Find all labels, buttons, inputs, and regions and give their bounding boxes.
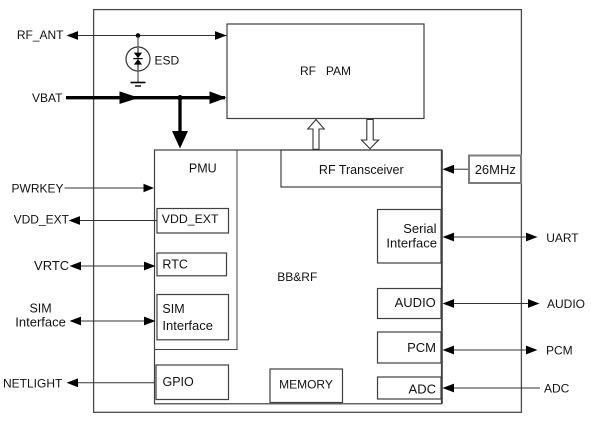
svg-text:RF PAM: RF PAM <box>300 64 351 78</box>
svg-text:VRTC: VRTC <box>34 258 69 273</box>
svg-text:Interface: Interface <box>162 318 213 333</box>
wire junction to ESD <box>137 36 139 48</box>
svg-text:ESD: ESD <box>155 54 180 68</box>
label ESD <box>155 54 180 68</box>
wire VRTC (bidirectional) <box>70 262 156 271</box>
label SIM Interface <box>15 302 66 330</box>
wire ADC (input only) <box>443 384 541 393</box>
label ADC <box>544 382 570 396</box>
svg-text:26MHz: 26MHz <box>475 162 516 177</box>
svg-text:RF Transceiver: RF Transceiver <box>319 163 404 177</box>
svg-text:Interface: Interface <box>386 235 437 250</box>
label AUDIO <box>547 297 585 311</box>
block PMU <box>155 150 238 350</box>
label UART <box>546 231 579 245</box>
wire RF_ANT net <box>67 31 227 40</box>
ESD diode D1 (bidirectional TVS) <box>126 47 150 71</box>
bus arrow down (RF RX) <box>362 120 379 149</box>
label VRTC <box>34 258 69 273</box>
wire ESD to ground <box>137 71 139 83</box>
svg-text:BB&RF: BB&RF <box>277 270 317 284</box>
block Serial Interface <box>378 210 442 264</box>
svg-text:SIM: SIM <box>29 302 51 316</box>
wire UART (bidirectional) <box>443 233 538 242</box>
module boundary box <box>94 10 522 413</box>
svg-text:PMU: PMU <box>189 161 217 175</box>
label RF_ANT <box>17 28 64 42</box>
svg-text:RF_ANT: RF_ANT <box>17 28 64 42</box>
svg-text:NETLIGHT: NETLIGHT <box>3 377 63 391</box>
wire 26MHz to transceiver <box>443 165 469 174</box>
wire VDD_EXT <box>69 216 158 225</box>
svg-text:AUDIO: AUDIO <box>547 297 585 311</box>
svg-text:Serial: Serial <box>403 221 436 236</box>
block GPIO <box>156 365 229 400</box>
block VDD_EXT regulator <box>157 209 229 234</box>
svg-text:VBAT: VBAT <box>32 91 63 105</box>
block PCM <box>378 332 442 363</box>
svg-text:RTC: RTC <box>162 257 187 271</box>
ground <box>131 83 146 87</box>
wire VBAT branch down into PMU <box>172 98 188 149</box>
svg-text:PWRKEY: PWRKEY <box>11 182 63 196</box>
block AUDIO <box>378 289 442 319</box>
svg-text:GPIO: GPIO <box>163 375 195 389</box>
block RF PAM <box>227 24 424 119</box>
label VBAT <box>32 91 63 105</box>
label VDD_EXT <box>14 213 70 227</box>
svg-text:UART: UART <box>546 231 579 245</box>
svg-text:ADC: ADC <box>544 382 570 396</box>
svg-text:Interface: Interface <box>15 315 66 330</box>
svg-text:ADC: ADC <box>409 381 436 396</box>
svg-text:VDD_EXT: VDD_EXT <box>14 213 70 227</box>
block ADC <box>378 377 442 399</box>
wire SIM (bidirectional) <box>70 317 156 326</box>
block BB&RF (baseband chip) <box>155 150 443 404</box>
node VBAT junction <box>177 95 182 100</box>
svg-text:MEMORY: MEMORY <box>279 378 333 392</box>
wire NETLIGHT <box>67 378 156 387</box>
oscillator 26MHz <box>469 156 521 184</box>
label NETLIGHT <box>3 377 63 391</box>
wire AUDIO (bidirectional) <box>443 299 540 308</box>
block MEMORY <box>270 369 343 403</box>
bus arrow up (RF TX) <box>308 120 324 150</box>
svg-text:PCM: PCM <box>546 343 573 357</box>
node RF_ANT junction <box>136 33 141 38</box>
svg-text:VDD_EXT: VDD_EXT <box>162 212 219 226</box>
label PCM <box>546 343 573 357</box>
block SIM Interface <box>157 295 229 340</box>
wire PWRKEY <box>65 184 155 192</box>
block RTC <box>157 253 227 276</box>
svg-text:AUDIO: AUDIO <box>395 295 436 310</box>
svg-text:SIM: SIM <box>162 302 184 316</box>
wire PCM (bidirectional) <box>443 346 538 355</box>
wire VBAT thick supply line <box>66 91 227 104</box>
svg-text:PCM: PCM <box>407 340 436 355</box>
label PWRKEY <box>11 182 63 196</box>
block RF Transceiver <box>281 150 442 187</box>
